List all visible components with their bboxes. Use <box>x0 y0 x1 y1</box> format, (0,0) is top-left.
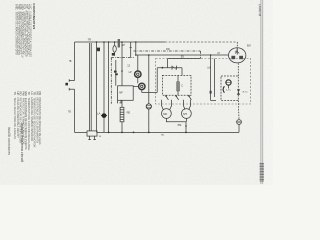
node C (top wire x=108.6) <box>108 41 110 43</box>
wire to motor MT left lead <box>183 100 185 110</box>
node F (top wire x=135.8) <box>135 41 137 43</box>
wire: top mains L1, y=42 <box>75 41 166 43</box>
wire: motor common return <box>166 118 186 121</box>
buzzer S on x=148.8 <box>148 55 150 104</box>
wire: bottom mains y=132.4 <box>75 131 88 133</box>
wire: horizontal feeder y=55 <box>136 54 229 56</box>
wire: left vertical x=74.5 <box>74 42 76 81</box>
indicator 2 (dark ring) <box>139 83 145 89</box>
wire: foot of x=210.6 <box>211 100 216 102</box>
relay feed wire y=67.7 <box>157 67 182 69</box>
switch blob on x=96.5 <box>97 48 100 52</box>
switch IT on left vertical <box>69 80 74 82</box>
dash-dot retard line RD y=51 <box>134 50 201 52</box>
relay contact K3 <box>188 95 191 100</box>
dash-dot cabinet boundary (left cluster) <box>110 58 112 104</box>
node K (bottom wire x=108.6) <box>108 132 110 134</box>
node D (top wire x=114.6) <box>114 41 116 43</box>
paper grain overlay <box>0 0 273 185</box>
node B (top wire x=104) <box>103 41 105 43</box>
wire: top continuation (faint dashes) to motor drop <box>165 41 237 43</box>
node M (bottom wire x=133.5) <box>133 132 135 134</box>
node J (bottom wire x=148.8) <box>148 132 150 134</box>
node I (feeder y=55 x=210.6) <box>210 54 212 56</box>
node E (top wire x=122) <box>121 41 123 43</box>
connector block TB at bottom-left <box>87 131 97 136</box>
wire to motor MT right lead <box>189 100 191 110</box>
relay coil C <box>177 82 180 91</box>
node on x=122 wire <box>121 70 123 72</box>
node H (feeder y=55 x=148.8) <box>148 54 150 56</box>
klixon / diode on dashed vertical <box>237 89 240 94</box>
timer block top wire y=58.6 <box>168 58 201 60</box>
wire: junction vertical x=135.8 <box>135 42 137 55</box>
component list top-left (rotated tiny text columns) <box>15 4 32 58</box>
wire: dashed drop into motor top <box>236 42 238 48</box>
wire: inner vertical x=210.6 <box>210 55 212 101</box>
wire: twin vertical pair (TR) <box>89 43 91 131</box>
node L (bottom wire x=122) <box>121 132 123 134</box>
switch TS on x=115.8 <box>115 60 117 86</box>
wire: inner vertical x=214.4 <box>213 59 215 97</box>
thermal blob on x=210.6 <box>210 91 212 94</box>
wire: short vertical x=130.7 <box>130 42 132 58</box>
big dashed enclosure (right half) <box>156 59 251 105</box>
wire: vertical x=104 with lamp LA <box>103 42 105 113</box>
lista38 caption (rotated, bottom-left) <box>7 123 24 163</box>
node A (top wire x=96.5) <box>96 41 98 43</box>
relay contact K1 <box>165 95 168 100</box>
dashed vertical through TC area down to lamp <box>237 63 239 76</box>
connector HP (hatched bar) <box>118 39 120 47</box>
motor EM top right <box>229 48 246 63</box>
wire: vertical x=108.6 <box>108 42 110 132</box>
page edge vertical lines, right <box>260 0 262 184</box>
wire to motor MC right lead <box>170 100 172 110</box>
wire from indicator down-left loop <box>142 90 157 93</box>
contact symbol on it <box>171 66 173 70</box>
node N (bottom wire x=186) <box>185 132 187 134</box>
resistor RE (hatched box) <box>120 107 124 122</box>
wire to motor MC left lead <box>162 100 164 110</box>
TC lead <box>228 85 230 88</box>
TC bracket <box>223 86 224 92</box>
binding hatch bottom-right <box>260 163 264 181</box>
left side vertical of relay loop <box>156 68 158 93</box>
TC sensor ring <box>226 80 231 85</box>
wire: vertical x=122 with resistor RE <box>121 42 123 107</box>
component list header COMPONENTES (rotated) <box>32 3 36 29</box>
control box MP <box>118 86 134 101</box>
node PM junction <box>185 125 187 127</box>
page background <box>0 0 273 185</box>
motor MT <box>182 109 192 119</box>
node G (feeder y=55 x=135.8) <box>135 54 137 56</box>
component list lower-left (rotated tiny text columns) <box>13 92 42 151</box>
fuse F on top wire <box>114 42 116 45</box>
TC dashed box <box>221 76 238 101</box>
lamp LA (filled) <box>102 113 107 118</box>
pilot lamp LP (dark ring) <box>135 71 141 77</box>
wire: vertical x=96.5 <box>96 42 98 132</box>
relay dashed box <box>162 75 191 95</box>
motor MC <box>162 109 172 119</box>
oven lamp bottom right <box>237 120 242 125</box>
relay contact K2 <box>175 95 178 100</box>
